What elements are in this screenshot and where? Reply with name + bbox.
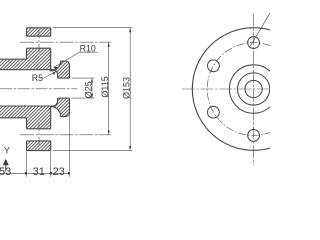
upper hole vertical tick — [38, 31, 40, 54]
dia153 arrows — [129, 28, 131, 32]
svg-text:R10: R10 — [80, 43, 96, 53]
dia25 arrows — [91, 78, 93, 82]
svg-text:Ø153: Ø153 — [122, 77, 132, 99]
upper bolt hole slot lines — [27, 36, 51, 48]
hub outer bottom line — [0, 117, 27, 119]
svg-text:Ø115: Ø115 — [100, 76, 110, 97]
small bore circle — [245, 80, 262, 97]
flange left face (interrupted by holes and hub) — [26, 28, 28, 151]
dia153 bottom extension — [53, 149, 133, 151]
dia115 arrows — [108, 42, 110, 46]
R5 leader — [40, 71, 56, 78]
thin lines: centerlines — [0, 31, 111, 147]
bolt circle (dash-dot) — [207, 43, 300, 136]
large bore bottom line + R5 fillet + step face — [0, 98, 58, 106]
outer flange circle dia153 (clipped at right edge) — [192, 28, 315, 151]
bottom dim dots — [25, 172, 28, 175]
hatch region: upper middle material (hub wall + flange band + boss upper) — [0, 48, 70, 78]
bottom dimension line — [0, 172, 69, 174]
thin lines: dimensions — [0, 28, 132, 177]
bottom extension lines — [26, 110, 69, 177]
flange right face lower + R10 fillet + boss bottom + corner — [51, 98, 70, 151]
upper hole centerline / ext for dia115 — [20, 41, 111, 43]
vertical centerline — [253, 14, 255, 166]
large bore circle — [238, 73, 270, 105]
boss circle — [229, 65, 277, 113]
bolt hole top — [248, 37, 260, 49]
horizontal centerline — [182, 88, 270, 90]
bolt hole bottom — [248, 130, 260, 142]
R5 arrow — [53, 71, 57, 75]
lower hole centerline / ext for dia115 — [20, 134, 111, 136]
small bore bottom line — [58, 97, 70, 99]
flange bottom edge — [27, 150, 51, 152]
arrowheads — [25, 28, 132, 175]
small bore top line — [58, 77, 70, 79]
bolt hole 210deg — [208, 106, 220, 118]
R10 arrow — [53, 67, 57, 70]
svg-text:R5: R5 — [32, 73, 43, 83]
large bore top line + R5 fillet + step face — [0, 70, 58, 78]
coordinate icon Y — [3, 145, 11, 171]
svg-text:Ø25: Ø25 — [83, 81, 93, 98]
dia25 extension lines — [72, 78, 95, 98]
main centerline — [0, 88, 77, 90]
R10 leader — [54, 52, 98, 67]
leader through top bolt hole — [249, 13, 270, 48]
dia153 dimension line — [129, 28, 131, 151]
lower hole vertical tick — [38, 124, 40, 147]
flange right face upper + R10 fillet + boss top + corner — [51, 28, 70, 78]
dia153 top extension — [53, 27, 133, 29]
hatch region: top flange band — [27, 28, 51, 36]
dia25 dimension line — [91, 78, 93, 98]
flange top edge — [27, 27, 51, 29]
svg-text:Y: Y — [4, 145, 11, 156]
lower bolt hole slot lines — [27, 129, 51, 141]
hub outer top line — [0, 58, 27, 60]
dia115 dimension line — [108, 42, 110, 135]
hatch region: bottom flange band — [27, 141, 51, 151]
bolt hole 150deg — [208, 60, 220, 72]
main outlines — [0, 28, 70, 151]
svg-text:53: 53 — [0, 166, 11, 178]
hatch region: lower middle material (mirror) — [0, 98, 70, 129]
svg-text:23: 23 — [53, 166, 65, 178]
svg-text:31: 31 — [33, 166, 45, 178]
